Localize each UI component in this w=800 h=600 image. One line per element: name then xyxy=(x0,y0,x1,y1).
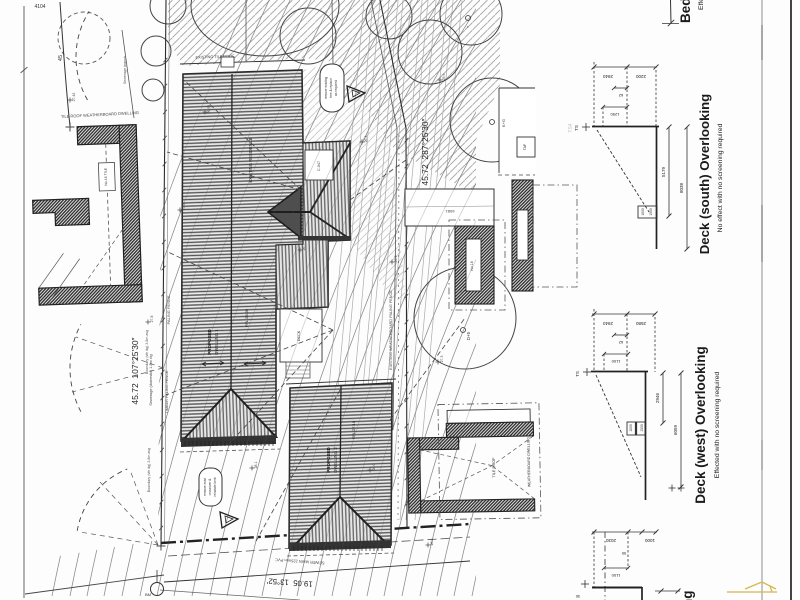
svg-text:27.42: 27.42 xyxy=(72,93,76,102)
svg-text:BM: BM xyxy=(145,592,151,597)
vegetation hatch area top xyxy=(168,0,500,195)
porch steps xyxy=(286,362,310,378)
south boundary title line xyxy=(164,561,470,582)
svg-text:1500: 1500 xyxy=(649,208,653,216)
svg-text:EXISTING WEATHERBOARD PALING F: EXISTING WEATHERBOARD PALING FENCE xyxy=(389,290,393,370)
svg-text:DWELLING 2: DWELLING 2 xyxy=(333,447,338,473)
svg-text:2200: 2200 xyxy=(635,74,646,79)
svg-text:27.8: 27.8 xyxy=(150,316,154,323)
svg-text:K+G: K+G xyxy=(501,119,506,127)
svg-text:No effect with no screening re: No effect with no screening required xyxy=(717,123,724,232)
neighbour house 2 hatched bar xyxy=(512,180,533,291)
svg-text:6059: 6059 xyxy=(673,424,678,435)
svg-text:1290: 1290 xyxy=(610,112,620,117)
svg-text:30: 30 xyxy=(575,594,580,599)
building A ridge arrows xyxy=(202,361,224,366)
left neighbour ridge dashes xyxy=(106,144,111,286)
building B roof (hatched) xyxy=(289,383,392,548)
svg-text:TAP: TAP xyxy=(523,143,527,150)
svg-text:26.9: 26.9 xyxy=(394,256,398,263)
slope triangle symbol north xyxy=(347,86,365,102)
west deck ground line xyxy=(645,371,647,500)
building B gable tick row xyxy=(293,546,295,551)
tree canopy circles xyxy=(150,0,186,24)
building A gable overhang dashed xyxy=(180,449,280,452)
south deck floor line xyxy=(592,126,659,128)
sight fan arc mid-west xyxy=(70,324,81,411)
left neighbour label box xyxy=(98,162,115,191)
top partial diagram dim line xyxy=(670,0,673,23)
left neighbour hip lines xyxy=(38,253,65,288)
west fence parallel line xyxy=(165,0,170,544)
note bubble south xyxy=(199,468,222,506)
south deck dim 62 xyxy=(614,87,628,89)
bottom-right neighbour dwelling xyxy=(407,403,541,520)
svg-text:1500: 1500 xyxy=(640,424,644,432)
svg-text:TS4: TS4 xyxy=(568,123,574,132)
sheet left border line xyxy=(23,6,25,598)
svg-text:28.1: 28.1 xyxy=(254,462,258,469)
slope triangle symbol south xyxy=(220,512,238,528)
svg-text:45.72 287°25'30″: 45.72 287°25'30″ xyxy=(420,118,430,185)
adjacent lot boundary top-left xyxy=(60,2,70,126)
west site boundary line xyxy=(161,0,166,546)
south deck right dim 1 xyxy=(668,127,670,216)
svg-text:Effected with screening requir: Effected with screening required xyxy=(698,0,705,10)
svg-text:26.4: 26.4 xyxy=(364,136,368,143)
garage white block over boundary xyxy=(405,189,494,226)
svg-text:27.1: 27.1 xyxy=(182,204,186,211)
bottom diagram dim 1100 xyxy=(604,567,629,569)
svg-text:PALING FENCE: PALING FENCE xyxy=(166,295,171,324)
west deck right dim 2 xyxy=(680,373,682,487)
svg-text:as required: as required xyxy=(334,80,338,96)
svg-text:crossover &: crossover & xyxy=(208,478,212,496)
svg-text:Sewerage branch: Sewerage branch xyxy=(123,56,127,84)
dashed arc top-left xyxy=(76,11,89,100)
sewer branch line top-left xyxy=(122,30,134,118)
corner mark BM circle xyxy=(151,583,164,596)
sight lines from decks xyxy=(168,252,333,330)
svg-text:C.047: C.047 xyxy=(317,161,321,171)
svg-text:Deck (west) Overlooking: Deck (west) Overlooking xyxy=(693,346,708,504)
svg-text:tree & replace: tree & replace xyxy=(329,78,333,98)
bottom diagram dim dashed verticals xyxy=(593,532,595,590)
svg-text:2940: 2940 xyxy=(602,321,613,326)
svg-text:1800: 1800 xyxy=(629,424,633,432)
corner tick west-south xyxy=(157,545,166,547)
south boundary kerb dash-dot line xyxy=(161,524,470,543)
svg-text:Boundary (sth dg) 3.8m avg: Boundary (sth dg) 3.8m avg xyxy=(145,330,149,374)
south deck top dim line xyxy=(594,66,657,68)
svg-text:26.0: 26.0 xyxy=(372,464,376,471)
svg-text:remove existing: remove existing xyxy=(324,77,328,100)
building B top eave line xyxy=(286,379,396,384)
svg-text:26.95: 26.95 xyxy=(207,105,211,114)
svg-text:TILE ROOF: TILE ROOF xyxy=(492,457,496,478)
south deck sight line xyxy=(597,130,649,212)
sewer main along road xyxy=(168,537,470,556)
svg-text:62: 62 xyxy=(618,93,623,98)
road edge line bottom left xyxy=(25,575,164,594)
east site boundary line xyxy=(380,0,407,528)
note bubble north xyxy=(320,64,344,112)
building A gable eave band xyxy=(181,435,276,447)
svg-text:6081: 6081 xyxy=(445,209,455,214)
svg-text:26.2: 26.2 xyxy=(430,539,434,546)
svg-text:TS: TS xyxy=(575,371,580,377)
gold watermark logo house xyxy=(727,591,777,593)
svg-text:45: 45 xyxy=(58,55,64,61)
bottom-right neighbour hip dashes xyxy=(420,449,492,467)
svg-text:62: 62 xyxy=(618,340,623,345)
sight fan arc corner-south xyxy=(77,469,127,531)
svg-text:DWELLING 1: DWELLING 1 xyxy=(214,329,219,355)
building A north eave label line xyxy=(180,60,305,64)
svg-text:remove exist: remove exist xyxy=(203,478,207,496)
svg-text:No.16 TILE: No.16 TILE xyxy=(104,167,109,185)
tree trunk marks xyxy=(466,16,471,21)
svg-text:26.7: 26.7 xyxy=(302,244,306,251)
bottom diagram floor line xyxy=(592,587,642,589)
svg-text:27.3: 27.3 xyxy=(440,356,444,363)
crossover lines top xyxy=(245,0,247,62)
building A eave meter box xyxy=(221,57,234,67)
svg-text:D+5: D+5 xyxy=(466,331,471,340)
neighbour shed white box top xyxy=(499,88,536,173)
west deck floor line xyxy=(591,371,648,373)
svg-text:5179: 5179 xyxy=(661,166,666,177)
building A gable tick row xyxy=(184,441,186,446)
left neighbour dwelling (hatched walls) xyxy=(30,125,142,306)
east boundary fence ticks xyxy=(405,138,409,143)
svg-text:25.9: 25.9 xyxy=(442,74,446,81)
svg-text:1000: 1000 xyxy=(644,538,655,543)
svg-text:90: 90 xyxy=(621,551,626,556)
svg-text:Effected with no screening req: Effected with no screening required xyxy=(714,372,721,479)
west deck dim 62 xyxy=(614,334,628,336)
south deck dim dashed verticals xyxy=(593,62,595,126)
svg-text:TIMBER PALING FENCE: TIMBER PALING FENCE xyxy=(165,370,169,413)
svg-text:Deck (east) Overlooking: Deck (east) Overlooking xyxy=(680,590,695,600)
svg-text:1100: 1100 xyxy=(611,573,620,578)
svg-text:DECK: DECK xyxy=(297,330,301,341)
svg-text:2940: 2940 xyxy=(602,74,613,79)
neighbour house mid-right hatched xyxy=(455,226,494,304)
west deck dim 1100 xyxy=(604,353,629,355)
south deck right dim 2 xyxy=(686,127,688,249)
building A main roof (hatched) xyxy=(181,70,350,441)
svg-text:1100: 1100 xyxy=(611,359,620,364)
sheet right gray rule xyxy=(761,0,763,600)
building B gable triangle xyxy=(294,497,386,546)
west boundary fence ticks xyxy=(164,58,168,63)
porch rectangle xyxy=(280,309,322,362)
svg-text:2580: 2580 xyxy=(635,321,646,326)
building A hip valley bowtie xyxy=(268,187,301,238)
svg-text:TS: TS xyxy=(574,125,579,131)
south deck fence box xyxy=(638,206,657,218)
building B gable overhang dashed xyxy=(287,553,394,556)
building A white service box xyxy=(305,150,333,180)
west deck sight line xyxy=(596,375,641,477)
svg-text:Deck (south) Overlooking: Deck (south) Overlooking xyxy=(697,94,712,254)
svg-text:Bedroom Overlooking: Bedroom Overlooking xyxy=(678,0,693,23)
spot level marks xyxy=(68,99,73,101)
svg-text:reinstate kerb: reinstate kerb xyxy=(213,477,217,497)
svg-text:FFL 27.10: FFL 27.10 xyxy=(351,420,356,439)
svg-text:4104: 4104 xyxy=(34,4,45,10)
svg-text:2030: 2030 xyxy=(605,538,616,543)
west deck dim dashed verticals xyxy=(593,309,595,372)
svg-text:1800: 1800 xyxy=(641,208,645,216)
svg-text:Sewerage (domestic) 1.8m clg: Sewerage (domestic) 1.8m clg xyxy=(149,354,153,405)
south deck dim 1290 xyxy=(603,106,628,108)
bottom diagram top dim line xyxy=(592,531,657,533)
building A rear wing vertical-striped section xyxy=(276,141,350,309)
building A gable triangle south xyxy=(183,389,276,440)
building A ridge line xyxy=(231,74,232,390)
sheet right black rule xyxy=(790,0,792,600)
building B eave band xyxy=(289,540,391,551)
east boundary parallel easement line xyxy=(371,0,397,430)
west deck right dim 1 xyxy=(662,373,664,423)
south deck ground line xyxy=(656,126,658,249)
svg-text:FFL 28.35: FFL 28.35 xyxy=(244,308,249,327)
building A wing eave band xyxy=(298,236,351,241)
svg-text:8038: 8038 xyxy=(679,182,684,193)
svg-text:2946: 2946 xyxy=(655,392,660,403)
bottom diagram right tick xyxy=(655,590,680,592)
svg-text:Boundary (sth dg) 3.8m avg: Boundary (sth dg) 3.8m avg xyxy=(147,448,151,492)
west deck fence box xyxy=(627,422,645,435)
building B ridge xyxy=(340,386,341,497)
sewer line along east boundary xyxy=(398,135,399,520)
svg-text:45.72 107°25'30″: 45.72 107°25'30″ xyxy=(130,337,140,404)
west deck top dim line xyxy=(592,313,656,315)
